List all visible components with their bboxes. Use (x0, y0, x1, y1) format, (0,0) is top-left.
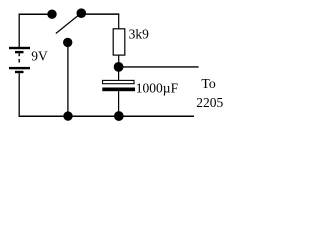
svg-text:To: To (201, 76, 215, 91)
svg-text:2205: 2205 (196, 95, 223, 110)
svg-text:3k9: 3k9 (129, 27, 150, 42)
svg-text:9V: 9V (31, 49, 48, 64)
svg-text:1000µF: 1000µF (136, 81, 179, 96)
